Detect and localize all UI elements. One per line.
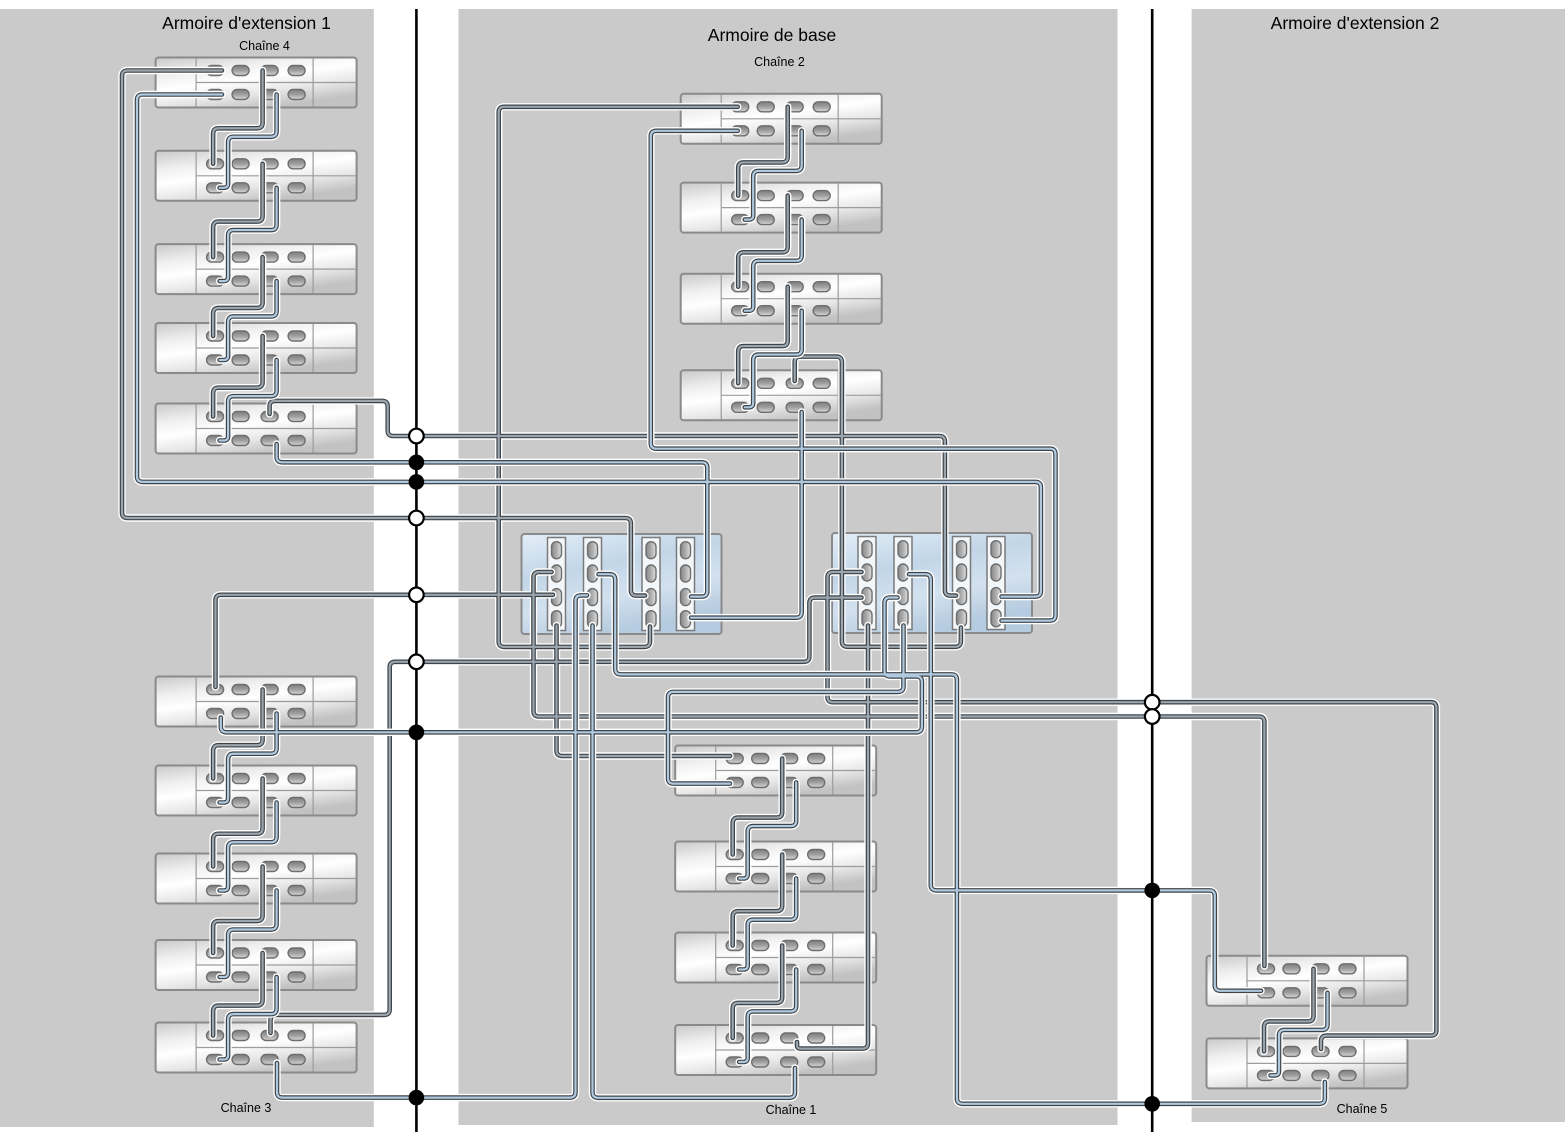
svg-text:Chaîne 3: Chaîne 3: [221, 1101, 272, 1115]
svg-text:Armoire de base: Armoire de base: [708, 25, 836, 45]
svg-text:Chaîne 1: Chaîne 1: [766, 1103, 817, 1117]
svg-text:Chaîne 4: Chaîne 4: [239, 39, 290, 53]
svg-text:Chaîne 5: Chaîne 5: [1337, 1102, 1388, 1116]
svg-text:Chaîne 2: Chaîne 2: [754, 55, 805, 69]
svg-text:Armoire d'extension 2: Armoire d'extension 2: [1271, 13, 1440, 33]
svg-text:Armoire d'extension 1: Armoire d'extension 1: [162, 13, 331, 33]
